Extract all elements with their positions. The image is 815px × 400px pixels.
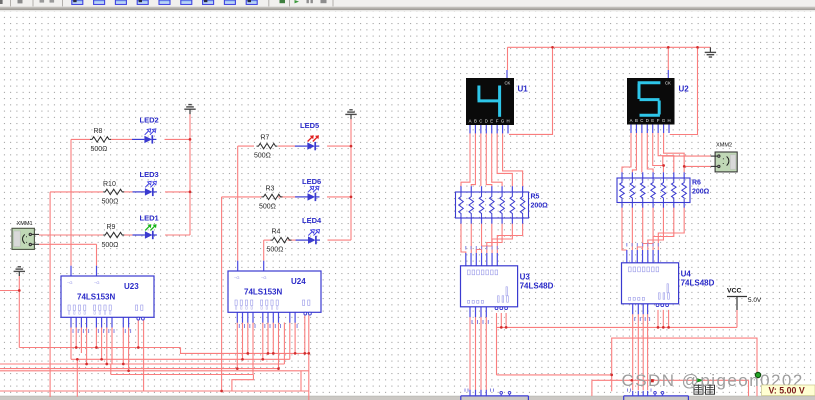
svg-text:LED3: LED3 [140,170,159,179]
svg-text:74LS153N: 74LS153N [77,293,115,302]
svg-text:500Ω: 500Ω [259,204,276,211]
svg-text:XMM2: XMM2 [716,143,732,149]
svg-text:D: D [485,118,488,123]
svg-text:U4: U4 [681,269,692,278]
svg-text:R8: R8 [94,128,103,135]
svg-text:~G: ~G [94,280,99,285]
svg-text:R9: R9 [107,224,116,231]
svg-text:500Ω: 500Ω [102,242,119,249]
svg-text:LED5: LED5 [300,121,319,130]
svg-text:~G: ~G [67,280,72,285]
svg-text:CK: CK [665,81,671,86]
svg-text:U2: U2 [679,85,690,94]
svg-text:F: F [657,118,660,123]
svg-text:U3: U3 [520,272,531,281]
svg-text:74LS48D: 74LS48D [681,278,715,287]
svg-text:~G: ~G [261,275,266,280]
svg-text:500Ω: 500Ω [102,199,119,206]
svg-text:U23: U23 [124,282,139,291]
svg-text:5.0V: 5.0V [748,297,762,304]
svg-text:R10: R10 [103,181,116,188]
svg-text:R5: R5 [531,194,540,201]
svg-text:CK: CK [505,81,511,86]
svg-text:LED6: LED6 [302,177,321,186]
svg-text:XMM1: XMM1 [17,221,33,227]
svg-text:LED4: LED4 [302,216,322,225]
svg-text:C: C [640,118,643,123]
svg-text:R6: R6 [692,180,701,187]
svg-text:74LS153N: 74LS153N [244,288,282,297]
svg-text:D: D [646,118,649,123]
svg-text:E: E [490,118,493,123]
svg-text:LED1: LED1 [140,214,159,223]
svg-text:LED2: LED2 [140,115,159,124]
svg-text:R4: R4 [272,229,281,236]
svg-text:200Ω: 200Ω [531,203,549,210]
svg-text:~G: ~G [234,275,239,280]
svg-text:R3: R3 [266,186,275,193]
svg-text:500Ω: 500Ω [267,247,284,254]
svg-text:B: B [635,118,638,123]
svg-text:500Ω: 500Ω [254,153,271,160]
svg-text:R7: R7 [261,135,270,142]
svg-text:H: H [667,118,670,123]
svg-text:200Ω: 200Ω [692,189,710,196]
svg-text:B: B [474,118,477,123]
svg-text:500Ω: 500Ω [91,146,108,153]
svg-text:F: F [496,118,499,123]
svg-text:A: A [469,118,472,123]
svg-text:E: E [651,118,654,123]
svg-text:U24: U24 [291,277,306,286]
svg-text:H: H [506,118,509,123]
svg-text:74LS48D: 74LS48D [520,281,554,290]
svg-text:U1: U1 [518,85,529,94]
svg-text:V: 5.00 V: V: 5.00 V [769,386,805,396]
svg-text:C: C [479,118,482,123]
svg-text:A: A [630,118,633,123]
svg-text:VCC: VCC [727,288,741,295]
